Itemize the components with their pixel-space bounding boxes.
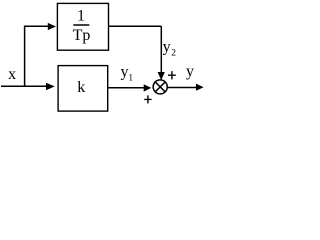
svg-text:y: y xyxy=(186,63,194,80)
svg-text:k: k xyxy=(77,79,85,96)
svg-text:x: x xyxy=(8,66,16,83)
svg-text:2: 2 xyxy=(171,49,176,59)
svg-text:1: 1 xyxy=(128,73,133,83)
svg-text:1: 1 xyxy=(77,8,85,25)
svg-text:Tp: Tp xyxy=(73,27,91,44)
svg-text:y: y xyxy=(163,39,171,56)
svg-text:y: y xyxy=(121,64,129,81)
